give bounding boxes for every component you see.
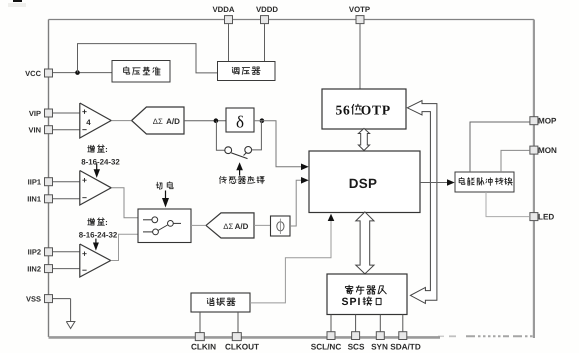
bus arrow SPI programming path	[407, 101, 437, 304]
pin IIN2	[27, 264, 52, 273]
svg-text:+: +	[82, 107, 87, 117]
pin SDA/TD	[390, 332, 421, 352]
svg-text:VIN: VIN	[28, 126, 41, 135]
block oscillator (xiezhenqi)	[191, 293, 250, 312]
wire VOTP drop	[359, 24, 361, 89]
svg-text::: :	[105, 145, 108, 154]
pin VDDA	[212, 5, 234, 23]
wire amp A3 to switch box	[111, 234, 138, 260]
block phase compensation phi	[271, 216, 291, 236]
pin SCS	[348, 332, 365, 352]
switch sensor-select contact left	[225, 147, 232, 154]
svg-text:VOTP: VOTP	[349, 5, 370, 14]
chip outline	[49, 20, 535, 339]
block energy pulse converter	[455, 172, 514, 192]
arrow gain control into amp A3	[93, 239, 99, 251]
svg-text:CLKOUT: CLKOUT	[225, 343, 259, 352]
bus arrow OTP-DSP bidirectional	[358, 128, 369, 150]
svg-text:ΔΣ: ΔΣ	[153, 117, 163, 126]
wire pulse converter to MON	[501, 150, 530, 172]
arrow oscillator into DSP	[328, 214, 335, 221]
svg-text:SPI: SPI	[342, 296, 362, 308]
svg-text:SCL/NC: SCL/NC	[311, 343, 342, 352]
pin MON	[530, 146, 557, 155]
wire VDDD drop	[264, 24, 266, 62]
adc ADC1 delta-sigma A/D voltage	[132, 107, 184, 134]
ground open arrow	[66, 322, 75, 329]
svg-text:SDA/TD: SDA/TD	[390, 343, 421, 352]
junction dot delta left	[214, 118, 219, 123]
svg-text:A/D: A/D	[166, 117, 180, 126]
svg-text:VDDD: VDDD	[256, 5, 278, 14]
svg-text:VDDA: VDDA	[212, 5, 234, 14]
wire pulse converter to MOP	[470, 122, 530, 172]
wire pulse converter to LED	[486, 192, 530, 217]
pin VSS	[26, 294, 53, 303]
svg-text:IIN2: IIN2	[27, 264, 41, 273]
svg-text:MOP: MOP	[538, 117, 557, 126]
svg-text:VCC: VCC	[25, 69, 41, 78]
op-amp A3 current amplifier 2	[80, 244, 111, 277]
pin VIN	[28, 126, 52, 135]
wire switch box to ADC2	[191, 224, 206, 226]
pin VCC	[25, 69, 52, 78]
wire delta to DSP	[254, 121, 302, 167]
wire VCC to voltage reference	[53, 72, 112, 74]
junction dot VCC node	[75, 70, 80, 75]
pin CLKIN	[191, 333, 216, 352]
svg-text:MON: MON	[538, 146, 557, 155]
wire IIN2 to amp	[53, 268, 80, 270]
block regulator (tiaoyaqi)	[218, 62, 276, 81]
svg-text:+: +	[82, 175, 87, 185]
wire CLKOUT stub	[237, 312, 239, 333]
wire delta bypass right	[252, 121, 262, 150]
arrow gain control into amp A2	[94, 164, 100, 178]
wire amp A2 to switch box	[111, 188, 138, 218]
svg-text:ΔΣ: ΔΣ	[223, 222, 233, 231]
switch sensor-select contact right	[245, 147, 252, 154]
arrow into pulse converter	[447, 179, 455, 186]
wire phase to DSP	[290, 180, 302, 226]
wire CLKIN stub	[199, 312, 201, 333]
label gain A3 (zengyi)	[79, 218, 118, 240]
bottom-right watermark	[438, 335, 533, 337]
pin CLKOUT	[225, 333, 259, 352]
svg-text:VSS: VSS	[26, 294, 41, 303]
adc ADC2 delta-sigma A/D current	[206, 213, 254, 238]
wire VCC to regulator	[78, 44, 218, 73]
wire delta bypass left	[216, 121, 224, 151]
svg-text:−: −	[82, 193, 87, 203]
wire VDDA drop	[228, 24, 230, 62]
wire amp A1 to ADC1	[111, 120, 131, 122]
svg-text:4: 4	[86, 118, 91, 127]
arrow sensor select pointer	[236, 162, 243, 175]
arrow into switch box	[162, 191, 169, 208]
wire SDA stub	[402, 315, 404, 333]
svg-text:−: −	[82, 124, 87, 134]
label sensor select (chuanganqi xuanze)	[220, 176, 265, 183]
pin VOTP	[349, 5, 370, 23]
wire IIP2 to amp	[53, 251, 80, 253]
svg-text:δ: δ	[236, 113, 244, 132]
svg-text:+: +	[82, 248, 87, 258]
op-amp A2 current amplifier 1	[80, 171, 111, 206]
svg-text:SCS: SCS	[348, 343, 365, 352]
label gain A2 (zengyi)	[81, 145, 120, 167]
svg-text:VIP: VIP	[29, 109, 41, 118]
pin VIP	[29, 109, 53, 118]
wire IIP1 to amp	[53, 181, 80, 183]
pin SYN	[371, 332, 388, 352]
wire ADC1 to delta	[184, 120, 226, 122]
junction dot delta right	[260, 118, 265, 123]
wire VIP to amp	[53, 112, 80, 114]
svg-text:IIN1: IIN1	[27, 195, 41, 204]
block 56-bit OTP	[322, 89, 406, 129]
svg-text:DSP: DSP	[349, 176, 377, 191]
block voltage reference (dianya jizhun)	[112, 61, 170, 83]
pin IIP2	[28, 248, 53, 257]
bus arrow DSP-register bidirectional	[356, 212, 374, 274]
pin LED	[530, 213, 554, 222]
block delta compensation	[226, 108, 254, 132]
top-left crop artifact	[8, 0, 26, 7]
wire ADC2 to phase	[254, 224, 271, 226]
svg-text:8-16-24-32: 8-16-24-32	[81, 158, 120, 167]
svg-text:−: −	[82, 265, 87, 275]
pin VDDD	[256, 5, 278, 23]
wire SCS stub	[355, 315, 357, 333]
svg-text:OTP: OTP	[361, 103, 391, 118]
wire VIN to amp	[53, 129, 80, 131]
block register and SPI interface	[327, 274, 407, 315]
pin SCL/NC	[311, 332, 342, 352]
block DSP	[309, 151, 420, 213]
svg-text:IIP2: IIP2	[28, 248, 41, 257]
svg-text:LED: LED	[538, 213, 554, 222]
label power switch (qie dian)	[156, 182, 173, 190]
svg-text:CLKIN: CLKIN	[191, 343, 216, 352]
svg-text:SYN: SYN	[371, 343, 388, 352]
arrow into DSP current path	[301, 177, 309, 184]
svg-text:A/D: A/D	[235, 222, 249, 231]
wire SCL stub	[330, 315, 332, 333]
pin IIP1	[28, 178, 53, 187]
arrow into DSP voltage path	[301, 164, 309, 171]
pin IIN1	[27, 195, 52, 204]
op-amp A1 gain-4 amplifier	[80, 103, 111, 138]
svg-text::: :	[105, 218, 108, 227]
wire SYN stub	[379, 315, 381, 333]
switch sensor-select arm	[231, 153, 247, 159]
wire VSS to ground	[53, 299, 71, 322]
wire IIN1 to amp	[53, 198, 80, 200]
block channel switch	[138, 209, 191, 243]
svg-text:56: 56	[335, 103, 350, 118]
wire oscillator to DSP	[250, 220, 331, 303]
wire DSP to pulse converter	[420, 182, 448, 184]
svg-text:8-16-24-32: 8-16-24-32	[79, 231, 118, 240]
pin MOP	[530, 117, 557, 126]
svg-text:IIP1: IIP1	[28, 178, 41, 187]
